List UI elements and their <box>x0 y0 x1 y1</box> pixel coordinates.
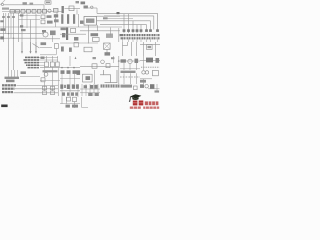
arrowhead D <box>118 59 120 62</box>
label CRT pins <box>5 77 20 79</box>
heater wire <box>120 60 140 62</box>
callout text 1 <box>2 84 16 86</box>
label posistor <box>20 25 23 27</box>
capacitor C1 <box>16 10 20 14</box>
note leader 3 <box>39 62 45 64</box>
node B+ <box>117 12 120 14</box>
capacitor C14 <box>43 91 47 95</box>
vertical wire <box>118 28 120 42</box>
vertical rail <box>18 13 20 42</box>
wire <box>88 7 97 9</box>
resistor R5 <box>12 16 15 18</box>
note leader 2 <box>39 59 58 61</box>
watermark tiny comma gap <box>141 106 143 109</box>
wire <box>44 38 60 40</box>
label TH <box>20 14 23 16</box>
rectifier VD1 <box>43 9 47 13</box>
capacitor C9 <box>50 62 54 67</box>
vertical wire right3 <box>136 42 138 56</box>
secondary fan wire 2 <box>104 16 154 30</box>
label IC1 <box>81 2 86 5</box>
small box B1 <box>67 97 71 101</box>
transformer T1 primary <box>62 6 64 13</box>
wire <box>19 15 41 17</box>
watermark small chars <box>145 101 159 105</box>
vertical wire <box>129 64 131 70</box>
transistor V2 <box>43 32 48 37</box>
wire <box>43 5 45 10</box>
wire <box>140 44 160 46</box>
label R6 <box>54 19 59 22</box>
marks <box>155 90 160 92</box>
capacitor C12 <box>43 86 47 90</box>
label mains text <box>0 28 5 31</box>
vertical wire <box>110 28 112 36</box>
note text line 5 <box>28 67 40 69</box>
capacitor C6 <box>55 44 59 49</box>
resistor R7 <box>80 21 83 24</box>
capacitor C5 <box>41 20 45 24</box>
label pin7 <box>103 17 108 19</box>
inductor L2 <box>32 9 36 13</box>
wire <box>97 15 121 17</box>
vertical wire <box>88 26 90 44</box>
node dot <box>67 67 69 69</box>
arrow wire A <box>21 42 23 52</box>
sub box wires <box>62 97 67 104</box>
cap blob3 <box>71 92 74 95</box>
vertical wire right5 <box>155 42 157 56</box>
callout text 3 <box>2 91 13 93</box>
transistor V4 <box>128 59 132 63</box>
wire <box>0 26 122 28</box>
component row blobs2 <box>72 105 78 108</box>
label K1 <box>46 2 50 4</box>
node dot <box>8 33 9 34</box>
cap blob2 <box>67 92 69 95</box>
vertical wire <box>94 70 96 84</box>
AC input terminal J1 <box>1 3 3 5</box>
bridge diagonal <box>104 43 111 49</box>
vertical wire <box>26 14 28 28</box>
resistor R10 <box>61 47 64 52</box>
label row v <box>43 70 58 72</box>
label top mark2 <box>30 3 34 5</box>
wire <box>0 33 44 35</box>
note text slits <box>27 56 37 68</box>
ground bus <box>40 67 80 69</box>
label speaker row <box>121 71 136 73</box>
note leader 4 <box>39 64 45 66</box>
watermark big char 2 slit <box>139 102 143 104</box>
rectifier diode VD17 <box>156 29 159 32</box>
transistor V6 <box>145 85 148 88</box>
vertical rail <box>13 13 15 70</box>
resistor R16 <box>72 84 75 88</box>
diode VD28 <box>140 84 144 88</box>
diode VD26 <box>67 84 70 89</box>
audio amp N5 <box>83 74 93 82</box>
bus maze 1 <box>104 70 118 83</box>
secondary drop 5 <box>123 14 125 33</box>
label bridge <box>105 52 111 55</box>
label GND text <box>0 36 4 39</box>
diode VD23 <box>67 70 71 74</box>
secondary fan wire 2b <box>104 17 133 19</box>
degauss coil circle2 <box>145 71 148 74</box>
vertical wire <box>113 56 115 63</box>
wire grid h <box>80 89 100 93</box>
wire <box>60 78 80 80</box>
arrow wire C <box>35 42 37 52</box>
bus maze 2 <box>100 75 111 83</box>
watermark tiny row <box>130 107 159 109</box>
vertical wire <box>143 56 145 70</box>
scan corner <box>0 0 5 5</box>
cap blob4 <box>75 92 78 95</box>
capacitor C15 <box>51 91 55 95</box>
capacitor C16 <box>88 93 92 96</box>
resistor R18 <box>94 85 97 89</box>
label deflection <box>21 71 26 74</box>
label N5 <box>86 76 91 80</box>
filter box L3 <box>147 45 153 50</box>
vertical wire <box>35 14 37 53</box>
watermark big char 1 slit <box>133 102 137 104</box>
vertical wire <box>58 84 60 96</box>
label gaps <box>105 84 115 87</box>
vertical rail <box>10 13 12 38</box>
diode VD27 <box>84 85 87 88</box>
vertical wire long2 <box>52 67 54 91</box>
wire <box>60 103 80 105</box>
vertical wire long4 <box>58 68 60 84</box>
regulator box N3 <box>93 37 100 41</box>
secondary fan wire 1 <box>157 13 159 29</box>
watermark big char 1 <box>133 101 138 106</box>
wire <box>40 80 60 82</box>
resistor R9 <box>71 29 76 33</box>
wire <box>20 75 40 77</box>
label T1 <box>61 28 66 31</box>
focus wire <box>140 59 160 61</box>
arrow wire D <box>118 56 120 84</box>
label U1 <box>86 19 94 23</box>
node dot <box>73 67 75 69</box>
leader wire 2 <box>15 88 58 90</box>
inductor L4 <box>92 64 97 68</box>
vertical wire <box>123 63 125 70</box>
label AC220V <box>2 8 9 10</box>
resistor R2 <box>84 6 88 9</box>
cap blob <box>62 92 65 95</box>
resistor R11 <box>69 48 72 52</box>
label mark <box>111 57 114 59</box>
label rail row a <box>120 34 160 36</box>
diagonal wire <box>33 44 40 49</box>
vertical wire right2 <box>131 42 133 56</box>
vertical wire <box>136 63 138 70</box>
resistor R1 <box>38 9 42 13</box>
diode VD22 <box>61 70 65 74</box>
rectifier diode VD12 <box>132 29 135 32</box>
diode VD3 <box>54 14 58 17</box>
corner wire <box>123 42 128 45</box>
vertical wire <box>82 97 89 107</box>
vertical wire <box>52 56 54 62</box>
wire <box>0 37 44 39</box>
small box <box>134 86 138 90</box>
capacitor C8 <box>45 62 49 67</box>
vertical wire <box>74 102 76 108</box>
resistor R13 <box>121 59 126 62</box>
switch transistor V1 <box>69 6 74 11</box>
label demag <box>41 42 47 45</box>
wire secondary feed <box>100 24 147 26</box>
wire B+ bus <box>97 12 158 14</box>
resistor R3 <box>2 16 5 18</box>
transistor V5 <box>44 72 48 76</box>
note text line 3 <box>25 62 40 64</box>
wire <box>40 47 52 49</box>
dashed link <box>141 66 160 68</box>
vertical wire <box>69 56 71 66</box>
capacitor C17 <box>95 93 99 96</box>
secondary drop 7 <box>132 21 134 33</box>
connector XS1 <box>153 70 159 75</box>
label diode row <box>101 84 120 87</box>
note leader 1 <box>39 56 58 58</box>
dashed wire <box>120 76 140 78</box>
secondary fan wire 4 <box>146 25 148 30</box>
small box B2 <box>73 97 77 101</box>
label conn <box>140 80 146 83</box>
arrowhead B <box>29 51 31 54</box>
capacitor C13 <box>51 86 55 90</box>
wire <box>120 68 140 70</box>
capacitor C2 <box>27 9 31 13</box>
vertical wire <box>156 84 158 92</box>
watermark small gaps <box>148 101 155 105</box>
vertical wire right4 <box>143 42 145 56</box>
wire <box>60 90 80 92</box>
label VT <box>41 57 45 59</box>
rectifier diode VD13 <box>136 29 139 32</box>
wire <box>97 20 151 22</box>
wire <box>60 33 86 35</box>
note text line 1 <box>25 57 39 59</box>
vertical wire long1 <box>44 82 46 91</box>
label rail row gaps <box>126 34 156 40</box>
note text line 4 <box>26 64 39 66</box>
regulator N4 <box>84 47 92 52</box>
arrowhead C <box>35 51 37 54</box>
wire <box>2 11 62 13</box>
diode VD25 <box>60 84 63 88</box>
CRT socket blob <box>6 80 15 83</box>
wire <box>78 14 80 27</box>
label rail row b <box>121 37 160 39</box>
resistor R19 <box>76 84 79 88</box>
transistor V3 <box>101 60 105 64</box>
note text line 2 <box>24 59 40 61</box>
capacitor C10 <box>56 62 60 67</box>
secondary drop 6 <box>128 14 130 33</box>
callout slits <box>5 84 13 94</box>
vertical wire grp <box>9 70 18 78</box>
inductor L1 <box>21 9 25 13</box>
resistor R8 <box>50 31 56 36</box>
vertical rail <box>5 13 7 34</box>
vertical wire <box>21 17 23 54</box>
wire <box>56 12 58 14</box>
vertical wire <box>30 20 32 54</box>
label C4 value <box>47 15 52 18</box>
label S801 <box>21 29 26 31</box>
resistor R17 <box>90 85 93 89</box>
resistor R14 <box>41 78 45 82</box>
leader wire 1 <box>17 85 59 87</box>
label V1 <box>76 1 80 3</box>
diode VD21 <box>135 59 139 63</box>
transformer core bar <box>66 28 68 41</box>
vertical rail <box>3 13 5 42</box>
rectifier diode VD14 <box>140 29 143 32</box>
label V2 <box>42 30 46 33</box>
wire <box>55 49 57 55</box>
wire <box>60 42 98 44</box>
capacitor C11 <box>156 58 160 63</box>
vertical wire long3 <box>62 74 75 84</box>
wire <box>4 4 44 6</box>
label fine gaps <box>103 84 118 87</box>
wire <box>96 8 98 13</box>
transformer T1 winding w1 <box>61 14 63 24</box>
vertical wire long5 <box>44 67 46 78</box>
wire <box>80 30 120 32</box>
label m1 <box>64 85 66 88</box>
label top mark <box>23 2 27 4</box>
label mark91 <box>93 57 96 59</box>
arrow up <box>75 57 77 60</box>
label R9 <box>74 37 78 41</box>
component row blobs <box>66 105 70 108</box>
wire <box>80 66 119 68</box>
rectifier diode VD16 <box>149 29 152 32</box>
capacitor C7 <box>74 43 78 47</box>
vertical wire <box>124 73 137 84</box>
wire <box>65 8 81 10</box>
page number <box>1 105 7 108</box>
vertical wire <box>57 56 59 62</box>
vertical wire <box>97 25 99 31</box>
thermistor RT1 <box>48 9 51 12</box>
rectifier diode VD11 <box>127 29 130 32</box>
secondary fan wire 3 <box>150 21 152 30</box>
wire <box>148 88 160 90</box>
label L3 <box>148 46 152 48</box>
capacitor C4 <box>41 15 45 19</box>
diode VD2 <box>91 6 93 8</box>
wire <box>19 19 41 21</box>
watermark tiny gaps <box>134 107 157 109</box>
vertical wire right1 <box>122 42 124 56</box>
wire <box>106 49 108 55</box>
arrow wire B <box>30 42 32 52</box>
node dot <box>13 38 14 39</box>
resistor R15 <box>77 70 81 75</box>
vertical wire <box>143 79 145 84</box>
leader wire 3 <box>14 92 59 94</box>
label degauss <box>0 20 3 22</box>
vertical wire <box>55 14 57 27</box>
transformer T1 winding w2 <box>67 14 69 24</box>
vertical wire <box>46 56 48 62</box>
secondary drop 8 <box>136 25 138 33</box>
pin stubs under labels <box>123 39 158 42</box>
degauss coil circle1 <box>142 71 145 74</box>
FBT box T2 <box>146 58 153 63</box>
fuse F1 <box>10 10 15 14</box>
dark box <box>150 84 154 89</box>
watermark big char 2 <box>139 101 144 106</box>
transformer T1 winding w3 <box>73 14 75 24</box>
vertical wire <box>52 36 54 43</box>
IC U1 box <box>84 17 97 26</box>
capacitor C3 <box>54 9 59 13</box>
resistor R4 <box>7 16 10 18</box>
diode VD24 <box>73 70 77 74</box>
rectifier diode VD10 <box>123 29 126 32</box>
callout text 2 <box>2 88 15 90</box>
photocoupler N1 <box>62 33 65 37</box>
vertical rail <box>8 13 10 70</box>
paper noise <box>0 0 160 110</box>
arrowhead A <box>21 51 23 54</box>
label rail row fine gaps <box>123 34 157 40</box>
resistor R12 <box>106 64 110 68</box>
bridge rectifier VD20 <box>104 43 111 49</box>
secondary drop 9 <box>140 25 142 33</box>
wire <box>140 78 152 80</box>
watermark cap icon <box>129 94 141 102</box>
node dot <box>61 67 63 69</box>
relay K1 <box>45 1 51 4</box>
wire <box>76 10 78 15</box>
label marks r <box>121 85 133 88</box>
vertical wire cluster <box>62 84 78 97</box>
label opto text <box>106 34 113 38</box>
wire <box>40 54 56 56</box>
label C5 value <box>47 21 53 24</box>
wire grid v <box>82 84 98 96</box>
error amp N2 <box>91 33 99 36</box>
rectifier diode VD15 <box>145 29 148 32</box>
